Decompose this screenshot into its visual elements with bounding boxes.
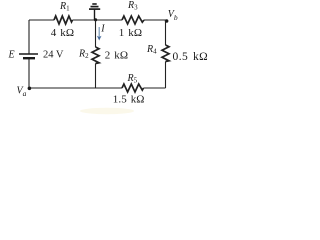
svg-text:I: I <box>100 24 105 35</box>
node junction dot at top of R2 <box>94 18 97 21</box>
battery E long plate <box>19 53 38 55</box>
wire R3 to node Vb <box>144 19 166 21</box>
wire bottom left segment <box>29 87 122 89</box>
resistor R2 <box>92 47 99 64</box>
svg-text:4 kΩ: 4 kΩ <box>51 27 74 39</box>
svg-text:R3: R3 <box>127 0 138 12</box>
node Vb dot <box>165 19 169 23</box>
svg-text:R1: R1 <box>59 1 70 13</box>
svg-text:24 V: 24 V <box>43 50 64 61</box>
resistor R5 <box>122 84 144 92</box>
svg-text:1 kΩ: 1 kΩ <box>119 27 142 39</box>
wire Vb down to R4 <box>165 20 167 45</box>
wire R2 top lead <box>95 20 97 47</box>
ground symbol (inverted, pointing up) <box>89 4 100 20</box>
svg-text:R2: R2 <box>78 49 89 61</box>
svg-text:Vb: Vb <box>168 9 178 22</box>
wire left bottom vertical <box>28 59 30 89</box>
svg-text:1.5 kΩ: 1.5 kΩ <box>113 94 145 106</box>
svg-text:E: E <box>8 50 15 61</box>
wire R2 bottom lead <box>95 64 97 89</box>
svg-text:2 kΩ: 2 kΩ <box>105 50 128 62</box>
wire top-left horizontal <box>29 19 54 21</box>
resistor R4 <box>162 45 169 62</box>
svg-text:R4: R4 <box>146 44 157 56</box>
current arrow I (blue) <box>97 27 102 41</box>
wire R1 to center node <box>73 19 96 21</box>
wire center node to R3 <box>96 19 123 21</box>
wire left top vertical <box>28 20 30 54</box>
wire R4 down to bottom corner <box>165 62 167 89</box>
svg-text:Va: Va <box>17 85 27 98</box>
battery E short plate <box>23 57 35 59</box>
node Va dot <box>28 87 32 91</box>
resistor R1 <box>54 16 73 24</box>
resistor R3 <box>122 16 144 24</box>
svg-text:R5: R5 <box>127 73 138 85</box>
wire bottom right segment <box>144 87 166 89</box>
svg-text:0.5 kΩ: 0.5 kΩ <box>173 51 209 63</box>
faint highlight smudge <box>80 108 134 114</box>
